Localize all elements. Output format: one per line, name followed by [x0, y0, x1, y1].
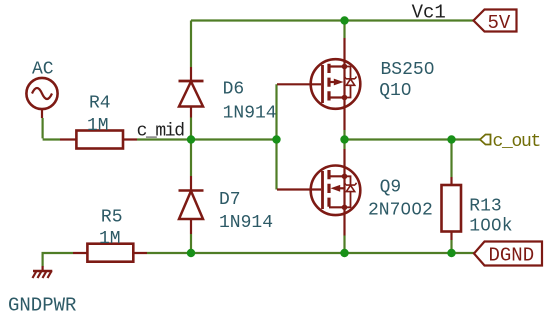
wire R13 top branch [450, 140, 452, 178]
R13 value 100k [469, 216, 512, 236]
svg-text:AC: AC [32, 59, 54, 79]
diode D7 1N914 [179, 176, 204, 234]
R13 reference text [469, 196, 501, 216]
svg-text:c_out: c_out [493, 132, 541, 152]
source connection [329, 207, 345, 235]
global label DGND [474, 242, 542, 267]
svg-text:Vc1: Vc1 [412, 2, 446, 24]
gate bar [321, 65, 324, 103]
resistor R4 [60, 131, 137, 149]
D6 value 1N914 [223, 103, 277, 123]
source connection [329, 98, 345, 131]
gate pin [277, 83, 321, 85]
wire bottom rail left (ground to R5) [43, 253, 73, 267]
wire R13 bottom branch [450, 240, 452, 253]
hierarchical label c_out [480, 132, 540, 152]
body diode [345, 176, 351, 207]
wire Q9 drain from c_out rail [343, 140, 345, 150]
junction node bottom rail / D7 [187, 249, 195, 257]
svg-text:R5: R5 [101, 207, 123, 227]
D7 reference text [219, 190, 241, 210]
AC voltage source V? [26, 78, 57, 118]
junction node bottom rail / Q9 source [340, 249, 348, 257]
svg-text:DGND: DGND [489, 245, 535, 267]
svg-text:Q9: Q9 [380, 178, 402, 198]
junction node c_out / Q10 source [340, 135, 348, 143]
R4 value 1M [87, 116, 109, 136]
wire c_mid rail [137, 138, 277, 140]
wire gate bus vertical [275, 84, 277, 189]
svg-text:Q10: Q10 [379, 81, 411, 101]
wire D7 anode to bottom rail [190, 234, 192, 253]
wire c_mid to D7 [190, 140, 192, 177]
R5 value 1M [99, 229, 121, 249]
body diode [345, 67, 351, 98]
arrow from body pointing left [340, 187, 345, 189]
net label Vc1 [412, 2, 446, 24]
Q9 value 2N7002 [368, 200, 433, 220]
channel segments [327, 64, 330, 101]
wire bottom rail right (R5 to DGND) [147, 252, 474, 254]
drain connection [329, 149, 345, 207]
wire c_out rail [345, 138, 481, 140]
junction node gate bus [272, 135, 280, 143]
wire AC source to R4 [43, 118, 60, 140]
svg-text:c_mid: c_mid [137, 122, 185, 142]
R4 reference text [89, 93, 111, 113]
R5 reference text [101, 207, 123, 227]
gate bar [321, 171, 324, 209]
D6 reference text [223, 79, 245, 99]
gate pin [277, 188, 321, 190]
transistor Q9 2N7002 N-MOSFET [277, 149, 360, 236]
D7 value 1N914 [219, 213, 273, 233]
resistor R5 [73, 244, 147, 262]
channel segments [327, 170, 330, 207]
wire Q10 source to c_out rail [343, 130, 345, 140]
resistor R13 [442, 177, 462, 240]
svg-text:2N7002: 2N7002 [368, 200, 433, 220]
svg-text:R13: R13 [469, 196, 501, 216]
wire Q10 drain from top rail [343, 21, 345, 39]
Q10 reference text [379, 81, 411, 101]
svg-text:D6: D6 [223, 79, 245, 99]
Q9 reference text [380, 178, 402, 198]
Q10 value BS250 [381, 60, 435, 80]
junction node c_mid [187, 135, 195, 143]
junction node top rail / Q10 drain [340, 16, 348, 24]
svg-text:BS250: BS250 [381, 60, 435, 80]
node c_mid label [137, 122, 185, 142]
AC label text [32, 59, 54, 79]
svg-text:1N914: 1N914 [219, 213, 273, 233]
svg-text:1M: 1M [99, 229, 121, 249]
svg-text:R4: R4 [89, 93, 111, 113]
svg-text:1N914: 1N914 [223, 103, 277, 123]
GNDPWR label text [8, 295, 76, 314]
svg-text:GNDPWR: GNDPWR [8, 295, 76, 314]
ground symbol GNDPWR [33, 266, 53, 278]
drain connection [329, 38, 345, 98]
svg-text:D7: D7 [219, 190, 241, 210]
arrow to body pointing right [329, 81, 334, 83]
junction node bottom rail / R13 [447, 249, 455, 257]
svg-text:1M: 1M [87, 116, 109, 136]
power flag 5V [474, 10, 517, 35]
wire top rail Vc1 [191, 19, 474, 21]
wire left vertical D6 to c_mid [190, 118, 192, 140]
svg-text:100k: 100k [469, 216, 512, 236]
wire left vertical top (to D6 cathode) [190, 21, 192, 68]
diode D6 1N914 [179, 67, 204, 118]
transistor Q10 BS250 P-MOSFET [277, 38, 360, 130]
svg-text:5V: 5V [488, 12, 511, 34]
wire Q9 source to bottom rail [343, 236, 345, 254]
zero glyph dot masks [404, 65, 498, 226]
junction node c_out / R13 [447, 135, 455, 143]
